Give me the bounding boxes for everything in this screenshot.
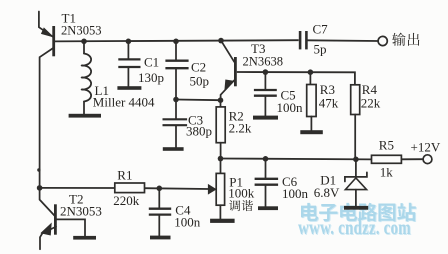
watermark www.cndzz.com bbox=[298, 217, 412, 239]
ground (R3) bbox=[300, 130, 323, 134]
ground (P1) bbox=[210, 219, 235, 223]
+12V terminal bbox=[423, 155, 432, 164]
label 调谐 bbox=[229, 200, 240, 211]
svg-text:380p: 380p bbox=[186, 124, 212, 139]
capacitor C5 bbox=[254, 72, 277, 116]
ground (C6) bbox=[258, 206, 278, 210]
svg-text:100n: 100n bbox=[174, 215, 201, 230]
wire C7 to output terminal bbox=[307, 39, 378, 42]
svg-text:www. cndzz. com: www. cndzz. com bbox=[298, 217, 411, 238]
svg-text:2N3053: 2N3053 bbox=[60, 203, 102, 218]
output terminal bbox=[378, 36, 387, 45]
svg-text:1k: 1k bbox=[380, 165, 394, 180]
node C2/bus bbox=[173, 39, 179, 45]
node C5/base wire bbox=[263, 69, 269, 75]
resistor R3 bbox=[307, 72, 316, 130]
svg-text:100k: 100k bbox=[228, 185, 255, 200]
node T3/bus bbox=[218, 38, 224, 44]
svg-text:R5: R5 bbox=[379, 138, 394, 153]
svg-text:100n: 100n bbox=[282, 186, 309, 201]
ground (C3) bbox=[163, 147, 184, 151]
svg-text:130p: 130p bbox=[138, 70, 164, 85]
capacitor C7 bbox=[300, 31, 306, 49]
svg-text:C1: C1 bbox=[144, 55, 159, 70]
zener diode D1 bbox=[345, 159, 367, 206]
svg-text:R1: R1 bbox=[117, 168, 132, 183]
resistor R1 bbox=[115, 183, 145, 193]
capacitor C3 bbox=[163, 100, 188, 148]
wire T3 base to R4 bbox=[237, 72, 355, 85]
wire speck artifact bbox=[37, 168, 40, 171]
resistor R2 bbox=[216, 100, 225, 158]
ground (D1) bbox=[344, 206, 368, 210]
svg-text:2N3638: 2N3638 bbox=[243, 54, 284, 68]
capacitor C6 bbox=[255, 159, 279, 207]
svg-text:6.8V: 6.8V bbox=[314, 185, 340, 200]
svg-text:2.2k: 2.2k bbox=[229, 121, 252, 136]
wire junction to R1 bbox=[40, 187, 115, 189]
capacitor C4 bbox=[149, 188, 171, 235]
svg-text:50p: 50p bbox=[190, 74, 210, 89]
wire R2 bottom rail to R5 bbox=[221, 158, 372, 161]
label 输出 bbox=[392, 33, 405, 46]
ground (C1) bbox=[117, 86, 141, 90]
svg-text:220k: 220k bbox=[113, 193, 140, 208]
wire top bus T1 base to C7 bbox=[54, 40, 299, 41]
ground (L1) bbox=[69, 114, 101, 118]
svg-text:+12V: +12V bbox=[411, 140, 441, 155]
ground (C5) bbox=[253, 116, 278, 120]
node L1/bus bbox=[81, 39, 87, 45]
wire C2/C3 to R2/T3emitter bbox=[176, 99, 221, 102]
ground (T2) bbox=[73, 236, 96, 240]
svg-text:5p: 5p bbox=[314, 42, 327, 57]
node R1/C4 bbox=[157, 186, 163, 192]
transistor T3 bbox=[221, 41, 237, 101]
svg-text:47k: 47k bbox=[319, 96, 339, 111]
capacitor C2 bbox=[165, 41, 188, 99]
inductor L1 bbox=[82, 41, 92, 114]
node R3/base wire bbox=[308, 69, 314, 75]
node T1/T2/R1 junction bbox=[37, 185, 43, 191]
svg-text:Miller 4404: Miller 4404 bbox=[93, 94, 155, 109]
node R2 top bbox=[218, 97, 224, 103]
wire R5 to +12V bbox=[401, 158, 423, 160]
node C6 bbox=[263, 156, 269, 162]
potentiometer P1 bbox=[208, 159, 224, 219]
transistor T2 bbox=[40, 188, 85, 249]
svg-text:100n: 100n bbox=[277, 100, 304, 115]
svg-text:C7: C7 bbox=[313, 22, 329, 37]
watermark 电子电路图站 bbox=[301, 203, 417, 222]
resistor R5 bbox=[372, 155, 402, 163]
node R2/P1 bbox=[218, 156, 224, 162]
node C1/bus bbox=[126, 39, 132, 45]
node D1/R4 bbox=[353, 157, 359, 163]
resistor R4 bbox=[351, 85, 360, 159]
transistor T1 bbox=[39, 12, 55, 188]
wire R1 to P1 wiper bbox=[145, 187, 209, 190]
svg-text:C2: C2 bbox=[191, 60, 206, 75]
ground (C4) bbox=[150, 236, 171, 240]
node C2-C3 junction bbox=[173, 97, 179, 103]
svg-text:22k: 22k bbox=[361, 96, 381, 111]
capacitor C1 bbox=[118, 41, 140, 86]
svg-text:2N3053: 2N3053 bbox=[61, 24, 102, 38]
